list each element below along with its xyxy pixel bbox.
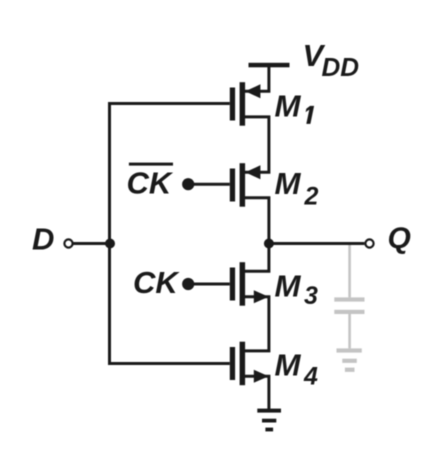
wire gate rail M1 to M4 (110, 104, 230, 364)
power rail VDD (249, 63, 290, 68)
svg-text:M: M (275, 166, 302, 201)
node CK terminal dot (182, 278, 194, 290)
wire M2 drain to node Q (245, 198, 269, 244)
ground load capacitor (gray) (337, 348, 362, 372)
wire node Q to M3 drain (245, 244, 269, 272)
junction node Q (264, 239, 274, 249)
transistor M2 (230, 163, 261, 207)
transistor M3 (230, 262, 269, 306)
svg-text:M: M (275, 89, 302, 124)
svg-text:CK: CK (133, 265, 180, 300)
label M2 (275, 166, 319, 211)
svg-text:4: 4 (303, 363, 318, 391)
svg-text:2: 2 (304, 183, 319, 211)
wire M1 source to VDD (245, 65, 269, 91)
wire CKbar to M2 gate (188, 183, 230, 186)
svg-text:M: M (275, 269, 302, 304)
label D (32, 222, 54, 257)
label CK (133, 265, 180, 300)
ground (257, 409, 281, 432)
wire M4 source to ground (245, 376, 269, 410)
label M1 (275, 89, 315, 124)
wire load capacitor bottom (gray) (348, 314, 351, 348)
wire M3 source to M4 drain (245, 297, 269, 351)
wire M1 drain to M2 source (245, 117, 269, 172)
label VDD (303, 38, 360, 82)
wire load capacitor top (gray) (348, 245, 351, 297)
transistor M4 (230, 342, 269, 386)
terminal Q open circle (365, 239, 373, 247)
transistor M1 (230, 82, 261, 126)
svg-text:D: D (32, 222, 54, 257)
terminal D open circle (64, 239, 72, 247)
svg-text:M: M (275, 348, 302, 383)
label CKbar (127, 163, 174, 201)
junction D node (105, 239, 115, 249)
svg-text:Q: Q (388, 222, 411, 255)
wire D to junction (73, 242, 110, 245)
node CKbar terminal dot (182, 178, 194, 190)
svg-text:3: 3 (304, 282, 318, 310)
wire node Q to terminal Q (269, 242, 365, 245)
svg-text:CK: CK (127, 166, 174, 201)
capacitor CL (gray) (334, 297, 364, 314)
svg-text:DD: DD (322, 52, 360, 82)
label Q (388, 222, 411, 255)
label M4 (275, 348, 319, 391)
label M3 (275, 269, 319, 310)
wire CK to M3 gate (188, 283, 230, 286)
